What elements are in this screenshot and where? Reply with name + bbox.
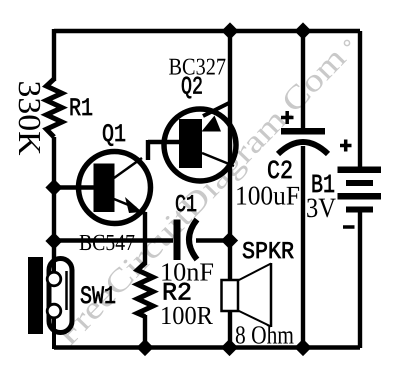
svg-text:10nF: 10nF [160,258,214,287]
svg-text:330K: 330K [12,81,48,156]
svg-text:Q1: Q1 [102,120,126,149]
svg-text:C1: C1 [175,192,197,219]
svg-text:SW1: SW1 [80,282,116,311]
svg-text:SPKR: SPKR [242,239,294,266]
svg-text:R1: R1 [69,94,93,123]
svg-text:3V: 3V [306,193,336,224]
svg-text:BC547: BC547 [79,230,135,255]
svg-text:100R: 100R [160,301,214,330]
svg-text:100uF: 100uF [235,181,300,211]
svg-text:8 Ohm: 8 Ohm [235,321,294,350]
svg-text:BC327: BC327 [169,55,227,81]
